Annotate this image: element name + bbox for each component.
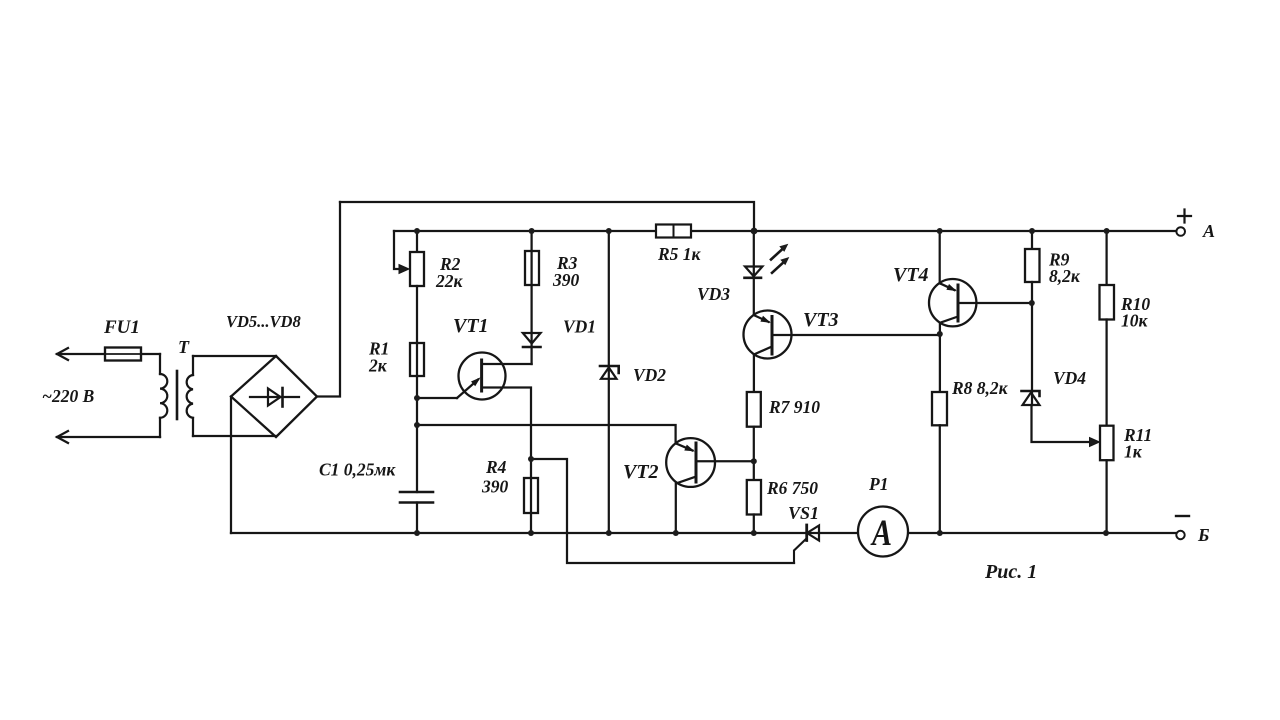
transistor VT3 emitter with arrow	[754, 315, 771, 323]
wire: R7 to R6	[753, 427, 755, 480]
arrow: mains top left arrowhead	[57, 348, 68, 360]
transistor VT2 circle	[666, 438, 715, 487]
wire: VD1 cathode to VT1 collector	[530, 347, 532, 364]
wire: R10 to R11	[1105, 320, 1107, 426]
svg-text:R7 910: R7 910	[768, 397, 820, 417]
svg-text:VD5...VD8: VD5...VD8	[226, 312, 301, 331]
transistor VT1 collector lead to VD1	[482, 363, 532, 365]
transistor VT2 base lead to R7/R6 node	[696, 460, 754, 462]
ammeter P1	[858, 507, 908, 557]
wire: C1 to bottom rail	[416, 503, 418, 534]
svg-text:Б: Б	[1197, 525, 1209, 545]
wire: bottom rail left part	[231, 532, 807, 534]
junction dots on plus rail	[414, 228, 1110, 235]
junction dot node R1/VT1 base	[414, 395, 420, 401]
bridge rectifier internal diode	[250, 388, 299, 407]
transistor VT4 collector lead down to R8	[940, 317, 958, 393]
transistor VT1 lower lead to R4	[482, 388, 531, 460]
wire: R8 to bottom rail	[939, 425, 941, 533]
wire: secondary bottom to bridge	[193, 435, 276, 437]
wire: R2 to R1	[416, 286, 418, 343]
svg-text:А: А	[1202, 221, 1215, 241]
LED VD3 emission arrows	[771, 244, 789, 273]
transistor VT4 circle	[929, 279, 976, 326]
wire: mains bottom lead	[57, 436, 160, 438]
wire: secondary top to bridge	[193, 355, 276, 357]
svg-text:1к: 1к	[1124, 442, 1143, 462]
svg-text:VT4: VT4	[893, 264, 929, 286]
resistor R3 390	[525, 231, 539, 333]
transistor VT3 collector lead down to R7	[754, 347, 772, 393]
transistor VT3 base bar	[771, 317, 774, 355]
transistor VT3 circle	[744, 311, 792, 359]
svg-text:VD3: VD3	[697, 284, 730, 304]
resistor R10 10k	[1100, 231, 1115, 320]
wire: bridge minus output down to bottom rail	[230, 397, 232, 534]
wire: plus rail (second rail)	[394, 230, 1176, 232]
svg-text:390: 390	[481, 477, 509, 497]
svg-text:VD2: VD2	[633, 365, 666, 385]
diode VD1	[523, 333, 541, 347]
arrow: R11 wiper arrowhead	[1090, 438, 1100, 447]
svg-text:VS1: VS1	[788, 503, 819, 523]
wire: bottom rail P1 to terminal B	[908, 532, 1176, 534]
svg-text:VD4: VD4	[1053, 368, 1086, 388]
variable resistor R2 22k	[410, 231, 424, 286]
transistor VT4 emitter with arrow	[940, 283, 957, 291]
wire: R4 node to thyristor gate line	[531, 459, 794, 563]
wire: R6 to bottom rail	[753, 515, 755, 534]
resistor R6 750	[747, 480, 761, 515]
zener diode VD2	[600, 231, 619, 533]
svg-text:VT1: VT1	[453, 315, 489, 337]
svg-text:C1 0,25мк: C1 0,25мк	[319, 460, 396, 480]
svg-text:R4: R4	[485, 457, 507, 477]
svg-text:R6 750: R6 750	[766, 478, 818, 498]
svg-text:22к: 22к	[435, 271, 464, 291]
junction dot node R1/C1/VT2 wire	[414, 422, 420, 428]
wire: bridge plus output to top rail	[317, 202, 340, 397]
wire: R11 to bottom rail	[1105, 460, 1107, 533]
bridge rectifier VD5...VD8 diamond	[231, 356, 317, 437]
terminal A plus output	[1176, 227, 1185, 236]
zener diode VD4	[1022, 391, 1040, 405]
variable resistor R11 1k	[1100, 426, 1114, 461]
junction dot VT4 base / R9 VD4 node	[1029, 300, 1035, 306]
svg-text:T: T	[178, 337, 190, 357]
svg-text:VT3: VT3	[803, 309, 839, 331]
wire: VT1 base from divider node	[417, 397, 457, 399]
svg-text:8,2к: 8,2к	[1049, 266, 1081, 286]
arrow: R2 wiper arrowhead	[399, 265, 409, 274]
svg-text:2к: 2к	[368, 356, 388, 376]
wire: top rail	[340, 202, 754, 231]
transistor VT1 circle	[459, 353, 506, 400]
capacitor C1 0,25mk	[400, 492, 433, 503]
transistor VT4 base lead to R9/VD4 node	[958, 302, 1032, 304]
svg-text:Рис. 1: Рис. 1	[984, 561, 1037, 583]
svg-text:R5 1к: R5 1к	[657, 244, 702, 264]
resistor R5 1k	[656, 225, 691, 238]
svg-text:P1: P1	[868, 474, 888, 494]
LED VD3	[745, 231, 763, 315]
junction dot VT2 base / R7 R6 node	[751, 458, 757, 464]
junction dots on bottom rail	[414, 530, 1109, 536]
fuse FU1	[105, 348, 141, 361]
wire: plus rail down to VT4 emitter	[939, 231, 941, 284]
thyristor VS1	[794, 525, 819, 563]
svg-text:10к: 10к	[1121, 311, 1149, 331]
svg-text:FU1: FU1	[103, 317, 140, 338]
resistor R1 2k	[410, 343, 424, 376]
transformer T core	[176, 371, 179, 419]
wire: R1 down to C1	[416, 376, 418, 492]
transistor VT2 emitter with arrow	[676, 443, 695, 451]
svg-text:~220 В: ~220 В	[42, 386, 95, 406]
svg-text:VT2: VT2	[623, 461, 659, 483]
minus sign at terminal B	[1176, 515, 1189, 517]
wire: mains top lead	[57, 353, 160, 355]
plus sign at terminal A	[1178, 210, 1191, 223]
wire: R2 wiper from plus rail	[394, 231, 399, 269]
svg-text:R8 8,2к: R8 8,2к	[951, 378, 1009, 398]
svg-text:VD1: VD1	[563, 317, 596, 337]
svg-text:A: A	[870, 513, 892, 554]
resistor R7 910	[747, 392, 761, 427]
wire: R9 to VD4	[1031, 282, 1033, 405]
resistor R8 8,2k	[932, 392, 947, 425]
arrow: mains bottom left arrowhead	[57, 431, 68, 443]
svg-text:390: 390	[552, 270, 580, 290]
transistor VT1 base bar	[480, 360, 483, 391]
junction dot VT3 base / VT4 collector node	[937, 331, 943, 337]
resistor R9 8,2k	[1025, 231, 1040, 282]
transformer T primary winding	[160, 354, 167, 437]
transistor VT1 emitter with arrow	[457, 377, 481, 398]
junction dot R4 top node	[528, 456, 534, 462]
resistor R4 390	[524, 459, 538, 533]
transistor VT3 base lead to VT4 collector node	[772, 334, 940, 336]
terminal B minus output	[1176, 531, 1184, 539]
transistor VT4 base bar	[957, 285, 960, 321]
transistor VT2 collector lead to bottom rail	[676, 477, 696, 534]
wire: node to VT2 emitter long wire	[417, 425, 676, 444]
wire: VD4 anode to R11 wiper	[1032, 405, 1091, 442]
wire: bottom rail VS1 to P1	[808, 532, 858, 534]
transistor VT2 base bar	[695, 443, 698, 482]
transformer T secondary winding	[187, 356, 193, 436]
